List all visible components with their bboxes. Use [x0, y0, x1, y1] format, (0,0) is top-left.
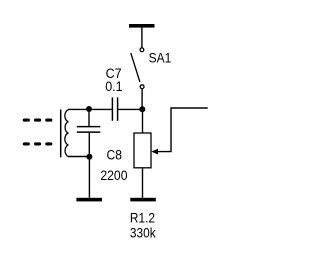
potentiometer R1.2 wiper arrow [151, 108, 207, 155]
label R1.2 [130, 210, 155, 225]
wire node B to C8 top plate [88, 109, 90, 126]
svg-text:2200: 2200 [100, 168, 127, 183]
wire R1.2 to ground [142, 168, 144, 198]
wire switch to node A [141, 89, 143, 110]
label C7 [106, 66, 122, 81]
label R1.2 value 330k [130, 226, 156, 241]
svg-text:C8: C8 [107, 148, 123, 163]
wire node C to ground [88, 157, 90, 198]
potentiometer R1.2 body [134, 133, 151, 168]
wire transformer top node to C7 left plate [89, 108, 112, 110]
label C8 value 2200 [100, 168, 127, 183]
svg-text:R1.2: R1.2 [130, 210, 155, 225]
junction node C (transformer bottom) [86, 154, 92, 160]
capacitor C7 [112, 97, 117, 120]
wire C8 bottom plate to node C [88, 132, 90, 156]
switch SA1 bottom contact [140, 85, 144, 89]
label SA1 [149, 50, 172, 65]
transformer core [60, 110, 62, 158]
ground (right) [130, 198, 156, 202]
power rail bar (top) [129, 24, 155, 28]
transformer winding (inductor) [65, 109, 90, 156]
label C8 [107, 148, 123, 163]
switch SA1 top contact [140, 48, 144, 52]
switch SA1 blade [131, 53, 140, 82]
svg-text:SA1: SA1 [149, 50, 172, 65]
wire power bar to switch SA1 [141, 28, 143, 48]
label C7 value 0.1 [105, 79, 123, 94]
capacitor C8 [77, 127, 101, 133]
dashed continuation wire (upper) [24, 119, 51, 122]
ground (left) [76, 198, 102, 202]
dashed continuation wire (lower) [24, 142, 51, 145]
svg-text:330k: 330k [130, 226, 156, 241]
junction node A (top of R1.2) [139, 106, 145, 112]
wire C7 right plate to node A [118, 108, 143, 110]
junction node B (transformer top) [86, 106, 92, 112]
wire node A to R1.2 [142, 109, 144, 133]
svg-text:0.1: 0.1 [105, 79, 123, 94]
